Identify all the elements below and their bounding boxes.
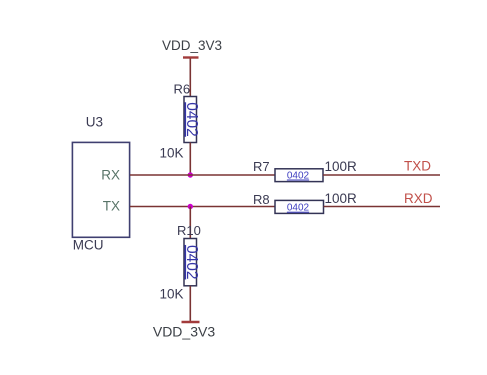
svg-text:R10: R10 — [177, 223, 201, 238]
power bar symbol VDD_3V3 (bottom) — [182, 321, 200, 323]
resistor R6 body — [183, 97, 200, 143]
svg-text:MCU: MCU — [73, 238, 104, 253]
wire VDD_3V3 bar to R6 pin 1 — [189, 59, 191, 97]
resistor R7 body — [275, 169, 323, 182]
wire TX node to R10 pin 1 — [189, 207, 191, 239]
wire R10 pin 2 to VDD_3V3 bar (bottom) — [189, 286, 191, 322]
svg-text:R7: R7 — [253, 159, 270, 174]
junction node TX net — [188, 204, 193, 209]
wire R7 pin 2 to TXD — [323, 174, 440, 176]
svg-text:VDD_3V3: VDD_3V3 — [162, 38, 222, 53]
svg-text:0402: 0402 — [287, 203, 310, 214]
svg-text:VDD_3V3: VDD_3V3 — [153, 324, 215, 340]
svg-text:TX: TX — [103, 199, 120, 214]
svg-text:TXD: TXD — [404, 159, 431, 174]
svg-text:R8: R8 — [253, 192, 270, 207]
resistor R10 body — [183, 239, 200, 286]
svg-text:100R: 100R — [325, 159, 358, 174]
svg-text:0402: 0402 — [287, 171, 310, 182]
svg-text:100R: 100R — [325, 191, 358, 206]
svg-text:U3: U3 — [86, 115, 103, 130]
power bar symbol VDD_3V3 (top) — [183, 56, 199, 58]
svg-text:10K: 10K — [160, 146, 184, 161]
svg-text:0402: 0402 — [183, 102, 200, 136]
svg-text:0402: 0402 — [183, 245, 200, 279]
IC U3 MCU body — [72, 142, 129, 237]
wire R8 pin 2 to RXD — [324, 206, 441, 208]
wire R6 pin 2 to RX node — [189, 143, 191, 176]
svg-text:RX: RX — [101, 168, 120, 183]
junction node RX net — [188, 172, 193, 177]
resistor R8 body — [275, 200, 324, 213]
wire TX pin to R8 pin 1 — [130, 206, 275, 208]
svg-text:10K: 10K — [160, 287, 184, 302]
wire RX pin to R7 pin 1 — [130, 174, 275, 176]
svg-text:R6: R6 — [174, 82, 191, 97]
svg-text:RXD: RXD — [404, 191, 433, 206]
